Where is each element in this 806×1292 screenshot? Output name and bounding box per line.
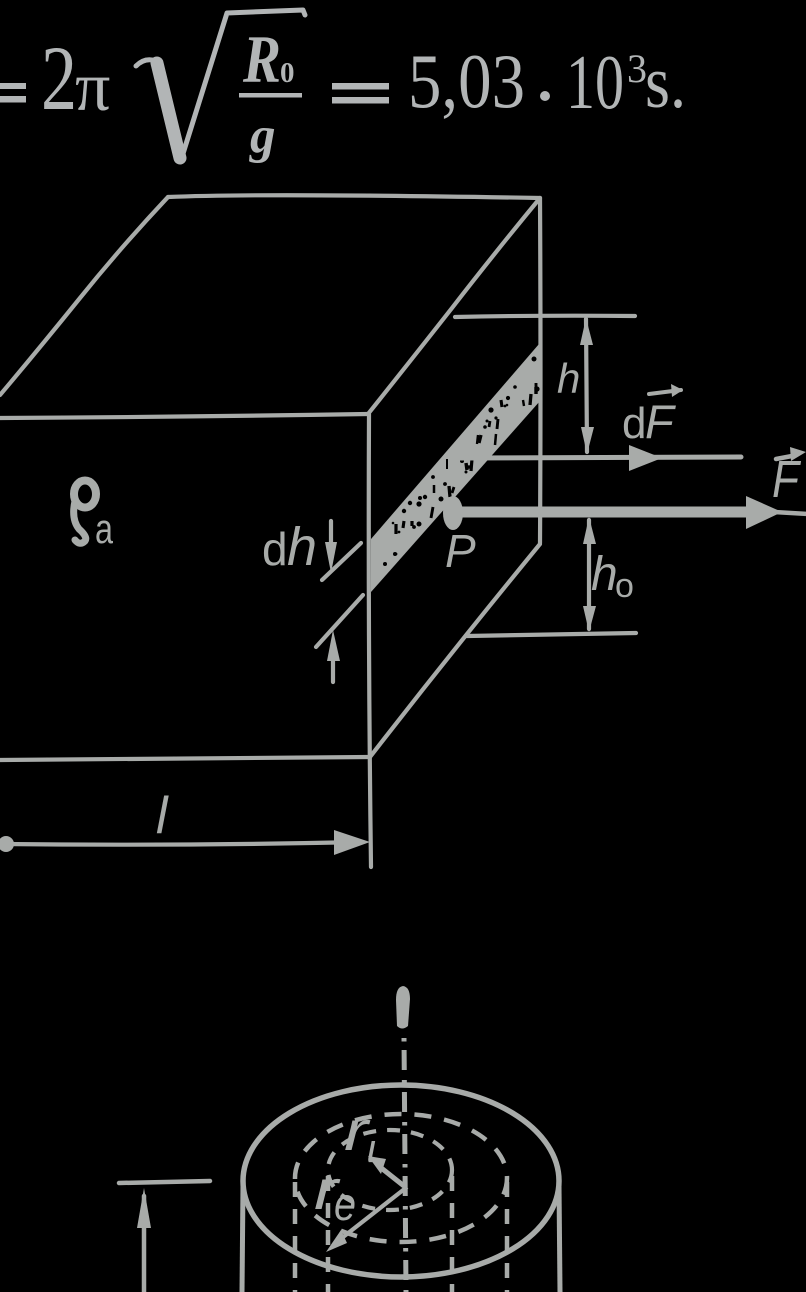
svg-text:ι: ι	[367, 1127, 376, 1171]
svg-text:h: h	[287, 517, 317, 577]
svg-text:g: g	[249, 108, 276, 164]
svg-text:π: π	[75, 49, 110, 126]
svg-text:d: d	[262, 523, 288, 575]
svg-text:o: o	[615, 567, 634, 605]
svg-text:h: h	[591, 548, 618, 601]
svg-text:0: 0	[280, 57, 295, 89]
svg-text:R: R	[242, 21, 281, 97]
svg-text:h: h	[557, 355, 580, 402]
svg-text:e: e	[334, 1178, 356, 1230]
svg-text:2: 2	[41, 27, 77, 129]
svg-text:3: 3	[627, 46, 647, 91]
svg-text:F: F	[645, 395, 676, 448]
svg-text:s.: s.	[645, 42, 686, 124]
svg-text:d: d	[622, 399, 646, 448]
svg-text:l: l	[156, 787, 169, 845]
svg-text:a: a	[95, 505, 113, 552]
svg-text:5,03: 5,03	[408, 38, 525, 124]
svg-text:P: P	[445, 525, 476, 577]
svg-text:10: 10	[566, 39, 624, 125]
